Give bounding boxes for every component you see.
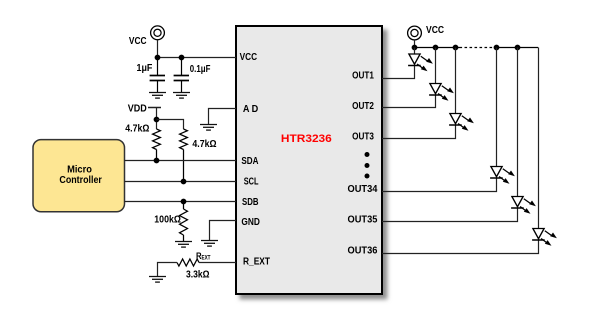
junction at C2 [179,55,185,61]
svg-text:4.7kΩ: 4.7kΩ [192,139,216,150]
svg-text:HTR3236: HTR3236 [281,133,332,145]
wire A D pin to ground [209,109,237,125]
LED D2 [429,84,454,101]
LED D3 [449,114,474,131]
svg-text:OUT2: OUT2 [352,101,374,112]
svg-text:VCC: VCC [426,25,444,36]
microcontroller block [33,140,125,212]
junction rail LED3 [453,45,459,51]
junction SDB at R3 [181,199,187,205]
ground below C1 [149,93,166,99]
LED D1 [408,54,433,71]
svg-text:EXT: EXT [202,254,211,261]
wire VDD down to junction [156,108,158,130]
wire rail to LED1 [414,48,416,55]
junction VDD split [154,117,160,123]
wire VCC terminal down [157,40,159,58]
wire rail to LED4 [496,48,498,167]
svg-text:OUT1: OUT1 [352,71,374,82]
LED supply rail solid right [494,47,538,49]
svg-text:3.3kΩ: 3.3kΩ [186,270,210,281]
junction rail LED2 [433,45,439,51]
VDD rail tick [148,107,161,109]
wire R_EXT pin to resistor [199,262,236,264]
wire rail to LED3 [455,48,457,114]
wire rail to LED5 [517,48,519,197]
svg-text:OUT35: OUT35 [348,214,378,225]
capacitor C1 1uF [150,58,165,93]
wire OUT34 to LED4 [382,178,497,192]
LED D5 [511,197,536,214]
junction SCL at R2 [181,179,187,185]
wire OUT35 to LED5 [382,208,518,222]
power terminal VCC right [408,26,422,40]
svg-text:SDB: SDB [242,197,259,208]
chip U1 HTR3236 body [236,26,382,294]
svg-text:100kΩ: 100kΩ [154,215,181,226]
svg-text:SCL: SCL [244,177,259,188]
svg-text:VCC: VCC [240,52,258,63]
svg-text:R_EXT: R_EXT [243,256,270,267]
wire OUT2 to LED2 [382,95,436,108]
LED D4 [490,167,515,184]
ground at GND [201,241,218,247]
junction SDA at R1 [154,158,160,164]
capacitor C2 0.1uF [174,58,189,93]
ground below C2 [173,93,190,99]
resistor R1 4.7k (SDA pullup) [153,129,161,161]
svg-text:GND: GND [241,217,260,228]
junction rail LED5 [515,45,521,51]
svg-text:VDD: VDD [128,103,147,114]
wire rail to LED6 [538,48,540,229]
wire OUT36 to LED6 [382,240,539,254]
svg-text:SDA: SDA [241,156,258,167]
ellipsis dots between OUT3 and OUT34 [365,152,370,179]
ground at A D [200,125,217,131]
wire GND pin to ground [210,221,237,241]
power terminal VCC left [151,26,165,40]
svg-text:0.1μF: 0.1μF [190,64,211,75]
wire VCC terminal to LED rail [414,40,416,48]
svg-text:A D: A D [243,104,258,115]
LED supply rail dashed [460,47,495,49]
wire SDA MCU to chip [125,160,237,162]
junction rail LED1 [412,45,418,51]
junction at C1 [155,55,161,61]
resistor R2 4.7k (SCL pullup) [180,129,188,182]
svg-text:OUT34: OUT34 [348,184,378,195]
svg-text:4.7kΩ: 4.7kΩ [125,124,149,135]
wire OUT3 to LED3 [382,125,456,139]
junction rail LED4 [494,45,500,51]
wire SDB MCU to chip [125,201,237,203]
resistor R3 100k (SDB pulldown) [180,202,188,242]
wire SCL MCU to chip [125,181,237,183]
wire VDD junction to R2 top [157,120,184,130]
ground at R_EXT [149,277,166,283]
svg-text:OUT3: OUT3 [352,131,374,142]
resistor R4 3.3k R_EXT horizontal [177,259,199,266]
designator label R_EXT [196,251,211,262]
svg-text:1μF: 1μF [137,63,153,74]
wire rail to LED2 [435,48,437,84]
LED supply rail solid left [415,47,460,49]
svg-text:Controller: Controller [59,174,102,186]
svg-text:VCC: VCC [129,36,147,47]
svg-text:OUT36: OUT36 [348,246,378,257]
wire VCC rail to chip VCC pin [158,57,237,59]
wire resistor to ground R_EXT [158,263,178,277]
ground below R3 [175,242,192,248]
wire OUT1 to LED1 [382,65,415,79]
LED D6 [532,229,557,246]
